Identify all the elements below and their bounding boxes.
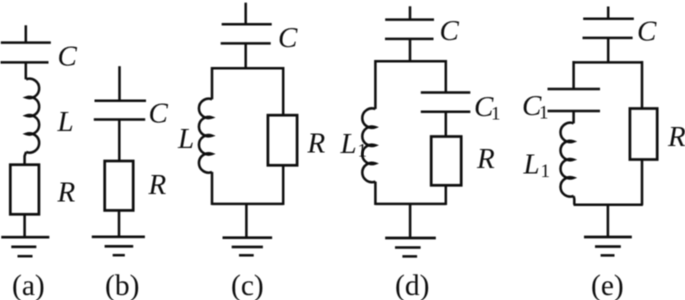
ground c <box>223 236 273 239</box>
svg-text:1: 1 <box>491 104 501 125</box>
top rail e <box>574 61 642 64</box>
svg-text:1: 1 <box>541 161 551 182</box>
wire inductor to rail c <box>211 172 214 205</box>
top rail d <box>375 60 445 63</box>
wire top stub a <box>25 25 28 42</box>
inductor L1 (e) <box>561 123 574 197</box>
svg-text:R: R <box>148 169 167 201</box>
ground b <box>92 235 145 238</box>
wire top stub e <box>607 7 610 19</box>
resistor R (b) <box>105 161 134 210</box>
wire rail to inductor d <box>374 60 377 109</box>
svg-text:C: C <box>637 16 657 48</box>
svg-text:C: C <box>278 22 298 54</box>
svg-text:L: L <box>57 106 74 138</box>
svg-text:(e): (e) <box>591 270 624 300</box>
svg-text:R: R <box>476 143 495 175</box>
bottom rail c <box>212 203 283 206</box>
wire C1 to resistor d <box>445 112 448 137</box>
wire top stub d <box>409 6 412 19</box>
ground d <box>385 237 436 240</box>
capacitor C1 (d) plates <box>421 93 471 112</box>
resistor R (a) <box>10 165 39 215</box>
wire C1 to inductor e <box>572 111 575 123</box>
ground a <box>1 236 49 239</box>
wire cap to rail c <box>244 43 247 68</box>
wire resistor to rail e <box>641 160 644 206</box>
capacitor C (e) plates <box>583 19 634 38</box>
svg-text:R: R <box>307 127 326 159</box>
capacitor C (a) plates <box>1 43 51 63</box>
bottom rail e <box>574 203 643 206</box>
wire cap to rail d <box>409 39 412 61</box>
svg-text:R: R <box>57 177 76 209</box>
wire resistor to ground b <box>118 210 121 236</box>
svg-text:C: C <box>149 98 169 130</box>
inductor L (c) <box>199 99 212 173</box>
capacitor C (b) plates <box>94 101 146 120</box>
wire top stub c <box>244 3 247 25</box>
wire inductor to resistor a <box>25 152 27 165</box>
wire top stub b <box>118 66 121 101</box>
capacitor C (d) plates <box>385 20 434 39</box>
svg-text:C: C <box>58 41 78 73</box>
inductor L (a) <box>26 79 39 153</box>
svg-text:L: L <box>340 128 357 160</box>
wire inductor to rail e <box>572 196 575 205</box>
svg-text:1: 1 <box>539 103 549 124</box>
resistor R (c) <box>268 115 297 165</box>
svg-text:(b): (b) <box>105 270 139 300</box>
wire resistor to rail d <box>445 185 448 205</box>
wire resistor to rail c <box>282 165 285 205</box>
wire rail to ground e <box>607 205 610 237</box>
svg-text:L: L <box>177 123 194 155</box>
bottom rail d <box>375 203 446 206</box>
wire rail to resistor c <box>282 67 285 115</box>
svg-text:(d): (d) <box>395 270 429 300</box>
wire inductor to rail d <box>374 182 377 205</box>
top rail c <box>212 67 283 70</box>
svg-text:1: 1 <box>358 141 368 162</box>
ground e <box>584 236 632 239</box>
svg-text:(c): (c) <box>231 270 264 300</box>
svg-text:L: L <box>523 148 540 180</box>
svg-text:R: R <box>667 121 685 153</box>
wire rail to capacitor C1 e <box>572 61 575 89</box>
svg-text:(a): (a) <box>12 270 45 300</box>
wire rail to resistor e <box>641 61 644 109</box>
resistor R (e) <box>630 109 657 160</box>
resistor R (d) <box>431 137 461 186</box>
wire rail to capacitor C1 d <box>445 60 448 93</box>
inductor L1 (d) <box>362 108 375 182</box>
wire cap to inductor a <box>25 62 28 79</box>
wire resistor to ground a <box>23 214 26 237</box>
wire cap to resistor b <box>118 120 121 162</box>
wire rail to ground d <box>409 204 412 238</box>
svg-text:C: C <box>440 15 460 47</box>
capacitor C (c) plates <box>221 24 272 43</box>
wire cap to rail e <box>607 38 610 63</box>
wire rail to inductor c <box>211 67 214 99</box>
wire rail to ground c <box>245 204 248 238</box>
capacitor C1 (e) plates <box>548 89 601 111</box>
